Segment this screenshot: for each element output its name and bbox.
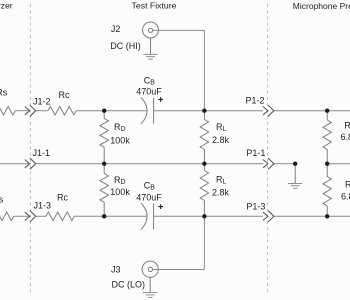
svg-text:100k: 100k <box>110 187 130 197</box>
resistor Rc (row 3) <box>46 212 74 221</box>
wire: J1-3 to Rc (row 3) <box>36 215 46 217</box>
section boundary (dashed) between Test Fixture and Microphone Preamp <box>267 4 269 293</box>
svg-text:P1-2: P1-2 <box>246 96 265 106</box>
junction node (row 3 / RL, J3 riser) <box>202 214 206 218</box>
svg-text:2.8k: 2.8k <box>212 135 230 145</box>
svg-text:Rs: Rs <box>0 194 4 204</box>
resistor RL 2.8k (between row 2 and row 3) <box>203 164 205 171</box>
wire: J3 pin to vertical riser <box>153 269 205 271</box>
connector P1-3 (arrow + chevron) <box>263 211 274 222</box>
resistor Rc (row 1) <box>48 106 76 115</box>
ground (preamp reference) <box>288 183 302 188</box>
connector P1-2 (arrow + chevron) <box>263 105 274 116</box>
capacitor CB curved plate (row 3) <box>141 203 147 230</box>
capacitor CB straight plate (row 3) <box>153 203 155 229</box>
ground (J2 shell) <box>143 54 157 59</box>
svg-text:100k: 100k <box>110 135 130 145</box>
wire: Rs to J1-2 connector (with arrowhead) <box>15 110 29 112</box>
wire: analyzer output to J1-1 connector <box>0 163 30 165</box>
connector J1-1 (arrow + chevron) <box>25 158 36 169</box>
connector J3 BNC outer shell <box>142 261 158 277</box>
svg-text:470uF: 470uF <box>136 192 162 202</box>
wire: Rc to capacitor CB (row 1, through node at x=104) <box>76 110 147 112</box>
svg-text:DC (HI): DC (HI) <box>110 41 141 51</box>
wire: P1-2 into preamp (row 1, through node at x=327) <box>274 110 350 112</box>
svg-text:470uF: 470uF <box>136 87 162 97</box>
svg-text:Rs: Rs <box>0 88 8 98</box>
resistor R 6.81k (preamp, between row 2 and row 3, label clipped) <box>326 164 328 177</box>
wire: Rc to capacitor CB (row 3, through node at x=104) <box>74 215 147 217</box>
junction node (row 2 / preamp R) <box>325 162 329 166</box>
wire: P1-3 into preamp (row 3, through node at x=327) <box>274 215 350 217</box>
svg-text:6.81k: 6.81k <box>341 132 350 142</box>
junction node (row 2 / RD) <box>102 162 106 166</box>
connector J3 BNC center pin <box>148 267 152 271</box>
svg-text:P1-3: P1-3 <box>246 202 265 212</box>
wire: J3 shell to ground <box>149 277 151 292</box>
svg-text:P1-1: P1-1 <box>246 148 265 158</box>
svg-text:J2: J2 <box>111 24 121 34</box>
svg-text:6.81k: 6.81k <box>341 191 350 201</box>
junction node (row 3 / RD) <box>102 214 106 218</box>
svg-text:RB: RB <box>345 179 350 190</box>
wire: CB to P1-3 connector (row 3, through node at x=204) <box>154 215 263 217</box>
svg-text:2.8k: 2.8k <box>212 188 230 198</box>
wire: ground node drop (preamp reference) <box>294 164 296 184</box>
wire: J1-2 to Rc (row 1) <box>36 110 48 112</box>
connector J2 BNC center pin <box>148 28 152 32</box>
svg-text:J3: J3 <box>111 264 121 274</box>
junction node (row 2 / RL) <box>202 162 206 166</box>
resistor Rs (row 3, clipped at left edge) <box>0 212 14 221</box>
svg-text:J1-3: J1-3 <box>34 201 52 211</box>
capacitor CB curved plate (row 1) <box>141 97 147 124</box>
capacitor CB straight plate (row 1) <box>153 98 155 124</box>
wire: vertical riser from J3 to row-3 node <box>203 216 205 269</box>
junction node (row 1 / RD) <box>102 109 106 113</box>
resistor R 6.81k (preamp, between row 1 and row 2, label clipped) <box>326 111 328 120</box>
junction node (row 2 / ground) <box>293 162 297 166</box>
wire: preamp mid node to right edge (row 2) <box>327 163 350 165</box>
svg-text:Rc: Rc <box>57 193 68 203</box>
polarity + (row 1 CB) <box>158 97 163 102</box>
svg-text:RB: RB <box>344 120 350 131</box>
resistor RD 100k (between row 1 and row 2) <box>103 111 105 119</box>
wire: CB to P1-2 connector (row 1, through node at x=204) <box>154 110 263 112</box>
section boundary (dashed) between Analyzer and Test Fixture <box>29 4 31 293</box>
svg-text:Analyzer: Analyzer <box>0 1 13 11</box>
svg-text:Rc: Rc <box>59 90 70 100</box>
junction node (row 1 / preamp R) <box>325 109 329 113</box>
wire: P1-1 to ground node <box>274 163 295 165</box>
svg-text:Microphone Preamp: Microphone Preamp <box>293 1 350 11</box>
wire: J1-1 to P1-1 connector (row 2) <box>36 163 263 165</box>
resistor RD 100k (between row 2 and row 3) <box>103 164 105 174</box>
junction node (row 1 / RL, J2 drop) <box>202 109 206 113</box>
wire: J2 shell to ground <box>150 38 152 54</box>
svg-text:DC (LO): DC (LO) <box>112 279 146 289</box>
ground (J3 shell) <box>143 293 157 298</box>
wire: Rs to J1-3 connector (with arrowhead) <box>14 215 30 217</box>
connector J1-3 (arrow + chevron) <box>25 211 36 222</box>
svg-text:Test Fixture: Test Fixture <box>132 1 177 11</box>
wire: J2 pin to vertical drop <box>153 29 205 31</box>
polarity + (row 3 CB) <box>158 204 163 209</box>
resistor RL 2.8k (between row 1 and row 2) <box>203 111 205 120</box>
connector J1-2 (arrow + chevron) <box>25 105 36 116</box>
junction node (row 3 / preamp R) <box>325 214 329 218</box>
wire: vertical drop from J2 to row-1 node <box>203 30 205 110</box>
svg-text:J1-2: J1-2 <box>33 96 51 106</box>
connector P1-1 (arrow + chevron) <box>263 158 274 169</box>
resistor Rs (row 1, clipped at left edge) <box>0 106 15 115</box>
svg-text:J1-1: J1-1 <box>33 148 51 158</box>
connector J2 BNC outer shell <box>143 22 159 38</box>
